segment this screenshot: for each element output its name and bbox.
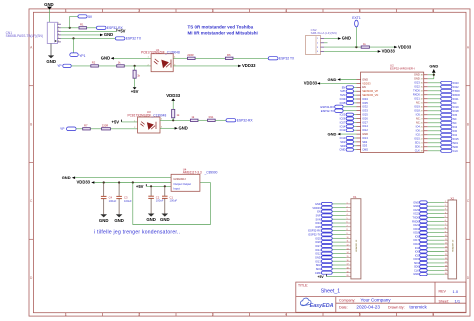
svg-text:VDD33: VDD33 xyxy=(166,93,180,98)
resistor R9 1k vertical pull-up xyxy=(172,109,180,120)
net flag YP row2 xyxy=(60,127,76,131)
wire YP to resistor R7 xyxy=(76,128,83,130)
svg-text:IO21: IO21 xyxy=(453,97,459,101)
svg-text:100uF: 100uF xyxy=(124,199,132,203)
svg-text:NC: NC xyxy=(416,101,420,105)
U3 pin numbers xyxy=(134,119,162,130)
capacitor C4 100uF xyxy=(101,183,117,215)
svg-text:Drawn By:: Drawn By: xyxy=(388,306,405,310)
svg-text:3: 3 xyxy=(445,209,446,211)
svg-text:GND: GND xyxy=(160,217,170,222)
wire CN1 pin2 to resistor R1 xyxy=(61,27,79,29)
svg-text:R11: R11 xyxy=(209,115,214,119)
svg-text:20: 20 xyxy=(347,275,349,277)
power flag VDD33 at U2 pin2 left xyxy=(304,81,320,86)
svg-text:28: 28 xyxy=(421,115,423,117)
svg-text:IO14: IO14 xyxy=(340,124,346,128)
svg-text:1: 1 xyxy=(65,313,67,317)
svg-text:SVN: SVN xyxy=(340,93,345,97)
svg-text:SENSOR_VN: SENSOR_VN xyxy=(362,93,378,97)
svg-text:GND: GND xyxy=(413,204,419,208)
svg-text:TXD0: TXD0 xyxy=(453,89,460,93)
svg-text:12: 12 xyxy=(347,245,349,247)
resistor R5 220R xyxy=(187,53,195,59)
svg-text:GND: GND xyxy=(414,73,420,77)
svg-text:R7: R7 xyxy=(84,124,88,128)
net flag ESP32-RX right of U3 xyxy=(226,119,253,123)
wire resistor R1 to net flag xyxy=(87,27,97,29)
svg-text:X1: X1 xyxy=(353,195,357,199)
svg-text:ESP32-RX: ESP32-RX xyxy=(308,229,321,233)
U2 left pin names xyxy=(362,77,378,151)
svg-text:IO12: IO12 xyxy=(315,252,321,256)
resistor R8 220R xyxy=(102,124,111,130)
svg-text:IO0: IO0 xyxy=(415,250,420,254)
svg-text:EN: EN xyxy=(317,210,321,214)
svg-text:23: 23 xyxy=(421,135,423,137)
svg-text:SENSOR_VP: SENSOR_VP xyxy=(362,89,378,93)
svg-text:IO22: IO22 xyxy=(453,85,459,89)
svg-text:SD2: SD2 xyxy=(340,140,346,144)
svg-text:15: 15 xyxy=(347,256,349,258)
wire R8 to U3 pin xyxy=(110,128,137,130)
svg-text:IO23: IO23 xyxy=(413,208,419,212)
svg-text:SD3: SD3 xyxy=(362,144,368,148)
ground GND top of CN1 xyxy=(44,2,54,9)
svg-text:IO13: IO13 xyxy=(340,136,346,140)
svg-text:2: 2 xyxy=(138,313,140,317)
svg-text:IO34: IO34 xyxy=(340,97,346,101)
svg-text:10: 10 xyxy=(445,235,447,237)
wire CN1 pin3 to +5V xyxy=(61,30,117,32)
svg-text:NC: NC xyxy=(416,117,420,121)
svg-text:11: 11 xyxy=(347,241,349,243)
svg-text:18: 18 xyxy=(445,265,447,267)
power flag GND at U2 top right xyxy=(428,64,439,79)
net flag YP row1 xyxy=(57,64,71,68)
svg-text:X2: X2 xyxy=(450,196,454,200)
svg-text:13: 13 xyxy=(347,248,349,250)
resistor R1 100R xyxy=(79,23,87,29)
wire GND flag to U4 GND/ADJ pin xyxy=(75,177,171,179)
wire CN2 pin4 to VDD33 flag xyxy=(324,50,378,52)
svg-text:IO22: IO22 xyxy=(413,212,419,216)
svg-text:220R: 220R xyxy=(102,124,108,128)
svg-text:NC: NC xyxy=(453,101,457,105)
svg-text:ESP32-TX: ESP32-TX xyxy=(309,233,322,237)
connector CN1 label SM06B-PASS-TB(LF)(SN) xyxy=(6,31,43,38)
svg-text:+5V: +5V xyxy=(131,89,139,94)
svg-text:26: 26 xyxy=(421,123,423,125)
svg-text:IO21: IO21 xyxy=(414,97,420,101)
svg-text:GND: GND xyxy=(315,256,321,260)
svg-text:4: 4 xyxy=(285,9,287,13)
wire U2 pin1 GND xyxy=(340,79,356,81)
svg-text:SD0: SD0 xyxy=(414,265,420,269)
svg-text:IO18: IO18 xyxy=(414,109,420,113)
U3 reference label xyxy=(128,110,167,117)
svg-text:Date:: Date: xyxy=(339,306,348,310)
svg-text:IO2: IO2 xyxy=(415,253,420,257)
svg-text:IO16: IO16 xyxy=(413,242,419,246)
ground below C4 xyxy=(99,214,109,223)
svg-text:IO23: IO23 xyxy=(453,81,459,85)
U4 reference label xyxy=(183,168,218,175)
svg-text:2: 2 xyxy=(317,43,318,45)
svg-text:SD0: SD0 xyxy=(415,145,421,149)
resistor R12 1k xyxy=(361,42,369,48)
svg-text:2: 2 xyxy=(347,206,348,208)
regulator U4 AMS1117-3.3 body xyxy=(171,174,200,191)
power flag +5V at U3 anode xyxy=(112,119,122,124)
svg-text:2020-04-23: 2020-04-23 xyxy=(356,305,380,310)
net flag ESP32 TX xyxy=(115,37,142,41)
svg-text:19: 19 xyxy=(445,269,447,271)
junction on ESP32 TX wire xyxy=(72,37,74,39)
svg-text:17: 17 xyxy=(445,262,447,264)
svg-text:IO35: IO35 xyxy=(362,101,368,105)
svg-text:CMD: CMD xyxy=(339,148,345,152)
svg-text:IO15: IO15 xyxy=(414,137,420,141)
wire feedback loop from U4 right pin xyxy=(133,183,211,225)
svg-text:GND: GND xyxy=(315,202,321,206)
wire R7 to R8 xyxy=(90,128,101,130)
svg-text:8: 8 xyxy=(347,229,348,231)
svg-text:IO22: IO22 xyxy=(414,85,420,89)
svg-text:3: 3 xyxy=(212,313,214,317)
ground GND below CN1 xyxy=(46,55,56,63)
svg-text:+5V: +5V xyxy=(136,184,144,189)
svg-text:TXD0: TXD0 xyxy=(413,89,420,93)
svg-text:IO19: IO19 xyxy=(413,227,419,231)
svg-text:12: 12 xyxy=(445,243,447,245)
power flag GND at U4 xyxy=(62,175,75,180)
op-amp U3 PC817 optocoupler body xyxy=(138,117,160,133)
svg-text:4: 4 xyxy=(445,212,446,214)
junction at feedback loop xyxy=(132,181,134,183)
power flag VDD33 at U4 output xyxy=(77,180,95,185)
power flag VDD33 above R9 xyxy=(166,93,180,101)
svg-text:IO26: IO26 xyxy=(362,116,368,120)
svg-text:5: 5 xyxy=(359,9,361,13)
svg-text:GND: GND xyxy=(429,64,438,69)
svg-text:VDD33: VDD33 xyxy=(304,81,318,86)
svg-text:GND: GND xyxy=(328,132,337,137)
svg-text:VDD33: VDD33 xyxy=(242,63,256,68)
svg-text:IO13: IO13 xyxy=(315,259,321,263)
svg-text:1: 1 xyxy=(134,120,135,122)
resistor R4 1k vertical xyxy=(133,66,141,78)
svg-text:IO14: IO14 xyxy=(362,124,368,128)
svg-text:2: 2 xyxy=(445,205,446,207)
svg-text:16: 16 xyxy=(445,258,447,260)
svg-text:_C89900: _C89900 xyxy=(204,171,218,175)
wire U2 pin2 VDD33 xyxy=(320,82,356,84)
power flag GND at U1 anode xyxy=(101,56,114,61)
junction at C1 xyxy=(164,185,166,187)
svg-text:4: 4 xyxy=(317,51,318,53)
wire R3 to U1 pin1 xyxy=(124,65,151,67)
resistor R11 xyxy=(208,115,216,121)
wire U3 emitter to GND flag xyxy=(160,127,175,129)
svg-text:GND: GND xyxy=(414,77,420,81)
svg-text:S4B-XH-A (LF)(SN): S4B-XH-A (LF)(SN) xyxy=(311,31,337,35)
power flag VDD33 at CN2 pin4 xyxy=(378,49,396,54)
svg-text:1: 1 xyxy=(317,38,318,40)
svg-text:SVP: SVP xyxy=(340,89,345,93)
svg-text:GND/ADJ: GND/ADJ xyxy=(173,177,186,181)
svg-text:22: 22 xyxy=(421,139,423,141)
power flag GND at U2 left GND pin xyxy=(328,132,357,137)
svg-text:IO33: IO33 xyxy=(362,109,368,113)
svg-text:100uF: 100uF xyxy=(170,199,178,203)
junction at C3 xyxy=(118,181,120,183)
svg-text:B: B xyxy=(467,122,469,126)
capacitor C2 100uF xyxy=(148,186,163,213)
U3 internal LED and phototransistor xyxy=(140,122,156,130)
svg-text:GND: GND xyxy=(362,132,368,136)
svg-text:PC817X2NSZ0F: PC817X2NSZ0F xyxy=(128,113,152,117)
wire CN2 pin1 to GND flag xyxy=(324,38,338,40)
svg-text:4: 4 xyxy=(285,313,287,317)
power flag VDD33 right of U1 xyxy=(238,63,256,68)
svg-text:Sheet:: Sheet: xyxy=(439,299,449,303)
svg-text:6: 6 xyxy=(432,313,434,317)
svg-text:17: 17 xyxy=(347,264,349,266)
svg-text:IO27: IO27 xyxy=(362,120,368,124)
module U2 ESP32-WROVER body xyxy=(361,72,424,152)
connector X2 pin rows with net flags xyxy=(412,200,448,276)
power flag +5V at U4 input xyxy=(136,184,146,189)
svg-text:ESP32-RX: ESP32-RX xyxy=(237,119,254,123)
svg-text:TXD0: TXD0 xyxy=(412,216,419,220)
svg-text:GND: GND xyxy=(413,272,419,276)
svg-text:3: 3 xyxy=(212,9,214,13)
svg-text:SD3: SD3 xyxy=(340,144,346,148)
svg-text:IO32: IO32 xyxy=(362,105,368,109)
U1 internal LED and phototransistor xyxy=(154,59,171,68)
svg-text:GND: GND xyxy=(342,36,351,41)
wire CN1 pin4 to GND flag xyxy=(61,34,100,36)
svg-text:IO23: IO23 xyxy=(414,81,420,85)
wire R2 to R3 xyxy=(98,65,116,67)
svg-text:2: 2 xyxy=(138,9,140,13)
svg-text:IO0: IO0 xyxy=(453,129,458,133)
svg-text:4: 4 xyxy=(58,33,59,35)
svg-text:SD2: SD2 xyxy=(362,140,368,144)
svg-text:IO18: IO18 xyxy=(453,109,459,113)
svg-text:IO5: IO5 xyxy=(453,113,458,117)
capacitor C3 100uF xyxy=(116,183,132,215)
svg-text:GND: GND xyxy=(413,200,419,204)
svg-text:Output Output: Output Output xyxy=(173,182,191,186)
wire R10 to R11 xyxy=(198,119,208,121)
power flag GND at CN2 pin1 xyxy=(338,36,351,41)
svg-text:IO25: IO25 xyxy=(362,113,368,117)
wire R5 to R6 xyxy=(195,57,225,59)
note text TS/MI resistors xyxy=(188,25,258,36)
svg-text:IO34: IO34 xyxy=(362,97,368,101)
power flag GND at CN1 pin4 xyxy=(100,32,113,37)
wire R4 to +5V xyxy=(134,78,136,87)
svg-text:+5V: +5V xyxy=(112,119,120,124)
U1 reference label xyxy=(141,48,180,55)
U2 right pin names xyxy=(413,73,420,153)
svg-text:1.0: 1.0 xyxy=(453,289,459,294)
svg-text:20: 20 xyxy=(421,147,423,149)
svg-text:GND: GND xyxy=(114,218,124,223)
wire GND flag to U1 pin xyxy=(114,57,151,59)
wire +5V to U4 Input pin xyxy=(146,185,171,187)
connector CN2 label S4B-XH-A xyxy=(311,28,337,35)
svg-text:19: 19 xyxy=(421,151,423,153)
connector X1 body xyxy=(351,195,361,279)
svg-text:19: 19 xyxy=(347,271,349,273)
resistor R6 0R xyxy=(225,53,233,59)
svg-text:5: 5 xyxy=(58,37,59,39)
svg-text:RXD0: RXD0 xyxy=(413,93,420,97)
junction at C4 xyxy=(103,181,105,183)
svg-text:IO13: IO13 xyxy=(362,136,368,140)
svg-text:NC: NC xyxy=(416,121,420,125)
svg-text:14: 14 xyxy=(445,250,447,252)
svg-text:GND: GND xyxy=(46,59,56,64)
svg-text:SVP: SVP xyxy=(316,214,321,218)
wire U1 emitter to VDD33 xyxy=(173,65,238,67)
svg-text:GND: GND xyxy=(146,217,156,222)
svg-text:MI 0R motstander ved Mitsubish: MI 0R motstander ved Mitsubishi xyxy=(188,30,258,35)
svg-text:10: 10 xyxy=(347,237,349,239)
svg-text:toremick: toremick xyxy=(409,305,427,310)
svg-text:IO26: IO26 xyxy=(340,117,346,121)
connector CN1 pins 1-6 xyxy=(58,24,61,42)
wire U1 collector to resistor R5 xyxy=(173,57,187,59)
svg-text:6: 6 xyxy=(432,9,434,13)
svg-text:VDD33: VDD33 xyxy=(362,81,371,85)
svg-text:6: 6 xyxy=(58,40,59,42)
U2 pin stubs xyxy=(357,75,428,151)
svg-text:IO15: IO15 xyxy=(453,137,459,141)
wire R6 to ESP32 TX flag xyxy=(233,57,268,59)
svg-text:RXD0: RXD0 xyxy=(453,93,460,97)
svg-text:Input: Input xyxy=(173,187,179,191)
net flag ESP32-RX at U2 xyxy=(320,105,356,109)
svg-text:2: 2 xyxy=(148,64,149,66)
svg-text:PC817X2NSZ0F: PC817X2NSZ0F xyxy=(141,51,165,55)
junction at pull resistor R4 xyxy=(134,65,136,67)
svg-text:R2: R2 xyxy=(92,61,96,65)
svg-text:ESP32-WROVER-I: ESP32-WROVER-I xyxy=(390,67,415,71)
svg-text:2: 2 xyxy=(134,127,135,129)
svg-text:35: 35 xyxy=(421,87,423,89)
svg-text:Sheet_1: Sheet_1 xyxy=(321,289,340,295)
svg-text:31: 31 xyxy=(421,103,423,105)
svg-text:IO5: IO5 xyxy=(415,234,420,238)
svg-text:IO19: IO19 xyxy=(453,105,459,109)
svg-text:IO27: IO27 xyxy=(315,244,321,248)
svg-text:18: 18 xyxy=(347,267,349,269)
ground below C3 xyxy=(114,214,124,223)
svg-text:GND: GND xyxy=(362,77,368,81)
svg-text:4: 4 xyxy=(347,214,348,216)
power flag GND at U2 pin1 left xyxy=(328,77,341,82)
svg-text:SM06B-PASS-TB(LF)(SN): SM06B-PASS-TB(LF)(SN) xyxy=(6,34,43,38)
ground below C1 xyxy=(160,214,170,223)
svg-text:100uF: 100uF xyxy=(109,199,117,203)
svg-text:IO15: IO15 xyxy=(413,257,419,261)
wire VDD33 to U4 Output pin xyxy=(94,182,171,184)
svg-text:VDD33: VDD33 xyxy=(77,180,91,185)
resistor R7 xyxy=(83,124,91,130)
svg-text:_C139048: _C139048 xyxy=(151,113,167,117)
svg-text:R1: R1 xyxy=(80,23,84,27)
junction EXT1 tap xyxy=(355,46,357,48)
wire R12 to VDD33 flag xyxy=(369,46,394,48)
svg-text:1: 1 xyxy=(347,203,348,205)
svg-text:SD2: SD2 xyxy=(316,263,322,267)
U2 reference label xyxy=(390,63,415,70)
svg-text:24: 24 xyxy=(421,131,423,133)
svg-text:38: 38 xyxy=(421,75,423,77)
svg-text:i tilfelle jeg trenger kondens: i tilfelle jeg trenger kondensatorer.. xyxy=(94,230,180,236)
svg-text:SVN: SVN xyxy=(315,217,320,221)
power flag +5V below R4 xyxy=(131,87,139,94)
svg-text:ESP32-TX: ESP32-TX xyxy=(321,109,334,113)
svg-text:REV: REV xyxy=(439,290,447,294)
svg-text:2: 2 xyxy=(58,26,59,28)
power flag VDD33 at CN2 pin3 xyxy=(394,44,412,49)
svg-text:IO14: IO14 xyxy=(315,248,321,252)
power flag GND right of U3 xyxy=(175,126,188,131)
svg-text:16: 16 xyxy=(347,260,349,262)
svg-text:TITLE:: TITLE: xyxy=(298,284,308,288)
svg-text:CMD: CMD xyxy=(362,148,368,152)
svg-text:3: 3 xyxy=(317,47,318,49)
svg-text:GND: GND xyxy=(104,32,113,37)
op-amp U1 PC817 optocoupler body xyxy=(151,54,173,72)
wire CN1 pin5 to ESP32 TX flag xyxy=(61,37,115,39)
junction below pull-up R9 xyxy=(172,119,174,121)
svg-text:SD0: SD0 xyxy=(453,145,459,149)
power flag +5V at CN1 pin3 xyxy=(117,29,126,34)
svg-text:EN: EN xyxy=(342,85,346,89)
svg-text:ESP32 TX: ESP32 TX xyxy=(279,57,295,61)
svg-text:6: 6 xyxy=(347,222,348,224)
svg-text:AMS1117-3.3: AMS1117-3.3 xyxy=(183,171,202,175)
capacitor C1 100uF xyxy=(162,186,177,213)
svg-text:IO25: IO25 xyxy=(315,236,321,240)
svg-text:5: 5 xyxy=(347,218,348,220)
svg-text:29: 29 xyxy=(421,111,423,113)
svg-text:6: 6 xyxy=(445,220,446,222)
wire U3 collector to junction xyxy=(160,119,190,121)
svg-text:SD1: SD1 xyxy=(453,141,459,145)
svg-text:IO21: IO21 xyxy=(413,223,419,227)
svg-text:1: 1 xyxy=(65,9,67,13)
svg-text:7: 7 xyxy=(445,224,446,226)
svg-text:15: 15 xyxy=(445,254,447,256)
svg-text:9: 9 xyxy=(347,233,348,235)
svg-text:3: 3 xyxy=(58,30,59,32)
svg-text:VDD33: VDD33 xyxy=(382,49,396,54)
svg-text:IO4: IO4 xyxy=(415,246,420,250)
svg-text:IO35: IO35 xyxy=(340,101,346,105)
svg-text:GND: GND xyxy=(101,56,110,61)
connector X1 pin rows with net flags xyxy=(308,202,351,279)
svg-text:11: 11 xyxy=(445,239,447,241)
svg-text:IO34: IO34 xyxy=(315,221,321,225)
svg-text:TS 0R motstander ved Toshiba: TS 0R motstander ved Toshiba xyxy=(188,25,254,30)
